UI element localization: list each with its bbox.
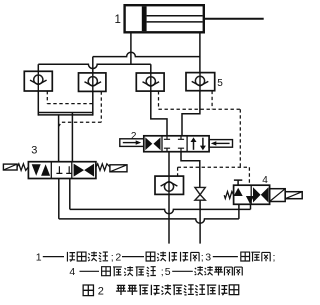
svg-text:1: 1 xyxy=(36,251,42,263)
svg-text:3: 3 xyxy=(205,251,211,263)
svg-text:4: 4 xyxy=(262,175,268,186)
svg-text:3: 3 xyxy=(31,145,37,157)
svg-text:1: 1 xyxy=(115,14,121,26)
svg-text:2: 2 xyxy=(131,131,137,142)
svg-text:5: 5 xyxy=(217,78,223,89)
svg-text:2: 2 xyxy=(115,251,121,263)
svg-text:4: 4 xyxy=(69,266,75,278)
svg-text:;: ; xyxy=(161,266,164,278)
svg-text:2: 2 xyxy=(98,285,104,297)
svg-text:;: ; xyxy=(273,251,276,263)
svg-text:;: ; xyxy=(201,251,204,263)
svg-text:5: 5 xyxy=(165,266,171,278)
svg-text:;: ; xyxy=(111,251,114,263)
